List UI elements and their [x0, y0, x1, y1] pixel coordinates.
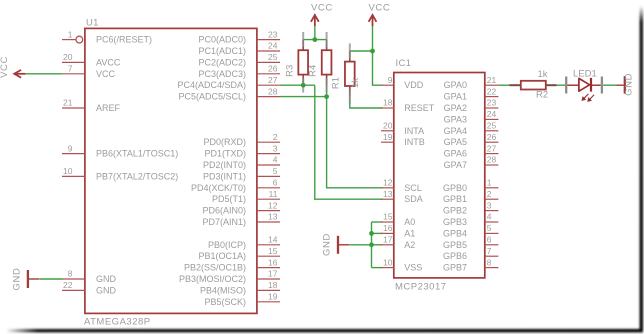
U1 left pin stubs [62, 40, 85, 291]
svg-text:5: 5 [487, 223, 492, 233]
svg-text:PB3(MOSI/OC2): PB3(MOSI/OC2) [179, 274, 246, 284]
R1 lead top [349, 51, 351, 63]
R1 body [345, 62, 355, 86]
svg-text:14: 14 [268, 235, 278, 245]
svg-text:1: 1 [487, 178, 492, 188]
svg-text:22: 22 [63, 280, 73, 290]
svg-text:GPA1: GPA1 [444, 92, 467, 102]
LED1 emission arrow 2 [588, 95, 594, 102]
svg-text:AREF: AREF [96, 103, 121, 113]
wire R2 to LED1 [556, 84, 565, 86]
R3 pin bar top [302, 32, 304, 47]
svg-text:SCL: SCL [404, 183, 422, 193]
svg-text:GND: GND [12, 268, 23, 291]
R4 pin bar bottom [326, 78, 328, 93]
svg-text:GND: GND [96, 274, 117, 284]
svg-text:PD0(RXD): PD0(RXD) [203, 137, 246, 147]
svg-text:24: 24 [487, 109, 497, 119]
svg-text:ATMEGA328P: ATMEGA328P [84, 317, 151, 328]
svg-text:PD4(XCK/T0): PD4(XCK/T0) [191, 183, 246, 193]
svg-text:26: 26 [487, 132, 497, 142]
wire SCL vertical R4 bottom to IC1 pin 12 [327, 85, 383, 188]
svg-text:R4: R4 [308, 65, 319, 77]
svg-text:PB4(MISO): PB4(MISO) [200, 285, 246, 295]
svg-text:3: 3 [487, 200, 492, 210]
svg-text:GPB3: GPB3 [443, 217, 467, 227]
svg-text:PB2(SS/OC1B): PB2(SS/OC1B) [184, 263, 246, 273]
svg-text:23: 23 [268, 29, 278, 39]
GND symbol at IC1 address pins [338, 236, 349, 254]
VCC supply symbol left (arrow pointing left) [14, 70, 25, 78]
R1 pin bar top [349, 43, 351, 58]
LED1 emission arrow 1 [582, 94, 588, 100]
IC1 left pin numbers [383, 75, 393, 267]
svg-text:26: 26 [268, 64, 278, 74]
svg-text:27: 27 [487, 143, 497, 153]
svg-text:28: 28 [268, 86, 278, 96]
svg-text:IC1: IC1 [396, 58, 412, 69]
wire VCC arrow 1 drop [314, 26, 316, 39]
LED1 cathode bar [590, 78, 592, 92]
svg-text:MCP23017: MCP23017 [395, 282, 447, 293]
resistor R2 body [521, 81, 546, 90]
R3 lead bottom [302, 74, 304, 86]
wire to A0 [372, 221, 383, 223]
svg-text:25: 25 [268, 52, 278, 62]
svg-text:17: 17 [268, 269, 278, 279]
svg-text:GND: GND [623, 73, 634, 96]
svg-text:18: 18 [268, 280, 278, 290]
wire LED1 to GND [603, 84, 616, 86]
wire to A2 [372, 244, 383, 246]
R4 pin bar top [326, 32, 328, 47]
svg-text:PB7(XTAL2/TOSC2): PB7(XTAL2/TOSC2) [96, 171, 178, 181]
junction A2/GND [369, 242, 374, 247]
svg-text:6: 6 [487, 235, 492, 245]
svg-text:PC2(ADC2): PC2(ADC2) [198, 57, 246, 67]
svg-text:PC0(ADC0): PC0(ADC0) [198, 35, 246, 45]
svg-text:23: 23 [487, 98, 497, 108]
svg-text:4: 4 [487, 212, 492, 222]
svg-text:12: 12 [383, 178, 393, 188]
junction VCC rail [312, 37, 317, 42]
IC1 right pin numbers [487, 75, 497, 267]
svg-text:1: 1 [68, 29, 73, 39]
svg-text:VCC: VCC [369, 3, 391, 14]
VCC supply symbol over R3/R4 [311, 15, 319, 26]
R1 lead bottom [349, 85, 351, 97]
svg-text:PD1(TXD): PD1(TXD) [204, 149, 246, 159]
svg-text:16: 16 [383, 223, 393, 233]
svg-text:PD2(INT0): PD2(INT0) [203, 160, 246, 170]
svg-text:INTA: INTA [404, 126, 424, 136]
svg-text:2: 2 [487, 189, 492, 199]
U1 right pin stubs [257, 40, 280, 302]
junction VCC/R1 [370, 49, 375, 54]
wire SDA vertical down to IC1 pin 13 [315, 85, 383, 199]
R4 body [322, 50, 332, 74]
svg-text:24: 24 [268, 41, 278, 51]
wire R1 bottom to IC1 RESET [350, 97, 383, 108]
R3 lead top [302, 40, 304, 52]
LED1 terminal bar left [565, 77, 567, 94]
svg-text:11: 11 [269, 189, 278, 199]
svg-text:12: 12 [268, 200, 278, 210]
svg-text:PD7(AIN1): PD7(AIN1) [202, 217, 246, 227]
svg-text:R2: R2 [536, 90, 548, 101]
svg-text:15: 15 [268, 246, 278, 256]
R1 pin bar bottom [349, 89, 351, 104]
svg-text:GPA5: GPA5 [444, 137, 467, 147]
IC U1 ATMEGA328P body [85, 28, 257, 313]
IC1 left pin names [404, 80, 435, 272]
svg-text:4: 4 [273, 155, 278, 165]
wire VCC to U1 pin 7 [25, 73, 62, 75]
wire VCC rail across R3/R4 tops [303, 39, 326, 41]
svg-text:28: 28 [487, 155, 497, 165]
svg-text:GPB2: GPB2 [443, 206, 467, 216]
IC1 left pin stubs [381, 85, 394, 267]
resistor R2 lead right [545, 84, 556, 86]
svg-text:LED1: LED1 [573, 68, 597, 79]
svg-text:21: 21 [63, 98, 73, 108]
junction SCL/R4 [324, 94, 329, 99]
svg-text:VCC: VCC [311, 3, 333, 14]
svg-text:VCC: VCC [96, 69, 116, 79]
LED1 terminal bar right [601, 77, 603, 94]
wire VCC node down to IC1 VDD [373, 51, 383, 85]
svg-text:17: 17 [383, 235, 393, 245]
svg-text:RESET: RESET [404, 103, 435, 113]
svg-text:VDD: VDD [404, 80, 424, 90]
svg-text:VCC: VCC [0, 56, 10, 78]
svg-text:GPB0: GPB0 [443, 183, 467, 193]
svg-text:25: 25 [487, 121, 497, 131]
svg-text:R1: R1 [331, 77, 342, 89]
LED1 lead left [567, 84, 578, 86]
svg-text:GPA7: GPA7 [444, 160, 467, 170]
svg-text:8: 8 [68, 269, 73, 279]
LED1 lead right [592, 84, 601, 86]
svg-text:PB5(SCK): PB5(SCK) [204, 297, 246, 307]
svg-text:PC4(ADC4/SDA): PC4(ADC4/SDA) [177, 80, 246, 90]
svg-text:27: 27 [268, 75, 278, 85]
svg-text:AVCC: AVCC [96, 57, 121, 67]
svg-text:VSS: VSS [404, 263, 422, 273]
svg-text:A2: A2 [404, 240, 415, 250]
resistor R2 1k lead left [510, 84, 522, 86]
svg-text:GPB4: GPB4 [443, 228, 467, 238]
IC1 right pin stubs [485, 85, 499, 267]
GND symbol left of U1 pin 8 [28, 270, 39, 288]
GND symbol right of LED1 [617, 76, 625, 93]
svg-text:GPA0: GPA0 [444, 80, 467, 90]
svg-text:3: 3 [273, 143, 278, 153]
svg-text:PB0(ICP): PB0(ICP) [208, 240, 246, 250]
svg-text:SDA: SDA [404, 194, 423, 204]
svg-text:20: 20 [383, 121, 393, 131]
svg-text:21: 21 [487, 75, 497, 85]
svg-text:7: 7 [487, 246, 492, 256]
svg-text:GPB1: GPB1 [443, 194, 467, 204]
wire GND to U1 pin 8 [39, 278, 62, 280]
wire to VSS [372, 267, 383, 269]
U1 pin 1 inverting bubble [76, 36, 83, 43]
svg-text:PC5(ADC5/SCL): PC5(ADC5/SCL) [178, 92, 246, 102]
svg-text:19: 19 [383, 132, 393, 142]
svg-text:7: 7 [68, 64, 73, 74]
svg-text:GPB6: GPB6 [443, 251, 467, 261]
svg-text:2: 2 [273, 132, 278, 142]
LED1 triangle [579, 78, 590, 91]
svg-text:R3: R3 [285, 65, 296, 77]
svg-text:10: 10 [383, 257, 393, 267]
svg-text:GPB5: GPB5 [443, 240, 467, 250]
svg-text:5: 5 [273, 166, 278, 176]
R3 pin bar bottom [302, 78, 304, 93]
svg-text:GPA4: GPA4 [444, 126, 467, 136]
wire address bus vertical [371, 222, 373, 268]
svg-text:GPB7: GPB7 [443, 263, 467, 273]
svg-text:INTB: INTB [404, 137, 425, 147]
U1 left pin names [96, 35, 178, 296]
svg-text:PC3(ADC3): PC3(ADC3) [198, 69, 246, 79]
wire IC1 GPA0 to R2 [498, 84, 509, 86]
R4 lead bottom [326, 74, 328, 86]
svg-text:PD5(T1): PD5(T1) [212, 194, 246, 204]
svg-text:10: 10 [63, 166, 73, 176]
U1 right pin numbers [268, 29, 278, 301]
IC IC1 MCP23017 body [394, 73, 485, 278]
IC1 right pin names [443, 80, 467, 272]
svg-text:GPA3: GPA3 [444, 114, 467, 124]
svg-text:22: 22 [487, 86, 497, 96]
svg-text:PD6(AIN0): PD6(AIN0) [202, 206, 246, 216]
svg-text:PB6(XTAL1/TOSC1): PB6(XTAL1/TOSC1) [96, 149, 178, 159]
svg-text:9: 9 [68, 143, 73, 153]
svg-text:PC1(ADC1): PC1(ADC1) [198, 46, 246, 56]
junction A1 [369, 231, 374, 236]
junction SDA/R3 [301, 83, 306, 88]
svg-text:19: 19 [268, 292, 278, 302]
svg-text:15: 15 [383, 212, 393, 222]
svg-text:GND: GND [322, 233, 333, 256]
svg-text:A1: A1 [404, 228, 415, 238]
wire GND to IC1 address node [349, 244, 371, 246]
svg-text:18: 18 [383, 98, 393, 108]
svg-text:GPA2: GPA2 [444, 103, 467, 113]
svg-text:PD3(INT1): PD3(INT1) [203, 171, 246, 181]
svg-text:13: 13 [383, 189, 393, 199]
svg-text:GPA6: GPA6 [444, 149, 467, 159]
svg-text:U1: U1 [86, 18, 99, 29]
svg-text:A0: A0 [404, 217, 415, 227]
svg-text:8: 8 [487, 257, 492, 267]
svg-text:13: 13 [268, 212, 278, 222]
wire SDA: U1 pin 27 to R3 bottom [280, 84, 315, 86]
svg-text:PB1(OC1A): PB1(OC1A) [198, 251, 246, 261]
svg-text:20: 20 [63, 52, 73, 62]
U1 right pin names [177, 35, 246, 307]
svg-text:1k: 1k [350, 78, 361, 88]
wire SCL: U1 pin 28 to R4 bottom [280, 96, 327, 98]
wire VCC arrow 2 drop [372, 26, 374, 51]
svg-text:9: 9 [388, 75, 393, 85]
svg-text:16: 16 [268, 257, 278, 267]
svg-text:PC6(/RESET): PC6(/RESET) [96, 35, 152, 45]
R3 body [298, 50, 308, 74]
svg-text:GND: GND [96, 285, 117, 295]
wire to A1 [372, 232, 383, 234]
svg-text:1k: 1k [538, 69, 548, 80]
R4 lead top [326, 40, 328, 52]
U1 left pin numbers [63, 29, 73, 290]
wire R1 top to VCC node [350, 50, 373, 52]
svg-text:6: 6 [273, 178, 278, 188]
VCC supply symbol over R1 [369, 15, 377, 26]
